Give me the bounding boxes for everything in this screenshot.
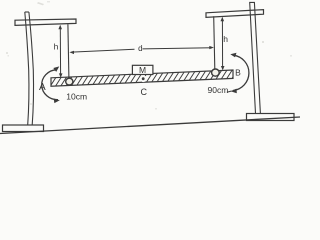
d dimension line — [69, 46, 214, 54]
arc arrow at A — [42, 66, 60, 103]
rod (metre rule) outline — [51, 70, 233, 86]
svg-text:B: B — [235, 67, 241, 77]
right stand top bar — [206, 10, 264, 18]
svg-text:d: d — [138, 44, 142, 53]
mass M box — [132, 65, 153, 74]
faint scan speckles — [6, 1, 292, 110]
right stand post — [250, 2, 261, 113]
left knot — [66, 78, 73, 85]
arc arrow at B — [230, 53, 249, 93]
left stand top bar — [15, 19, 76, 25]
left string — [68, 24, 69, 78]
svg-text:h: h — [223, 34, 228, 44]
svg-text:90cm: 90cm — [208, 85, 229, 95]
svg-text:10cm: 10cm — [66, 91, 87, 101]
rod hatching — [42, 66, 245, 91]
right string — [214, 16, 215, 69]
left stand post — [25, 11, 29, 13]
point C dot — [140, 75, 147, 82]
svg-text:h: h — [54, 42, 59, 52]
left h dimension line — [58, 25, 62, 78]
ground — [0, 117, 300, 134]
right stand base — [247, 114, 295, 121]
svg-text:M: M — [139, 65, 146, 75]
background paper — [0, 0, 300, 140]
svg-text:C: C — [141, 87, 148, 97]
90cm leader tail — [227, 91, 232, 92]
right knot — [212, 69, 220, 76]
left stand base — [3, 125, 44, 132]
right h dimension line — [221, 17, 225, 71]
